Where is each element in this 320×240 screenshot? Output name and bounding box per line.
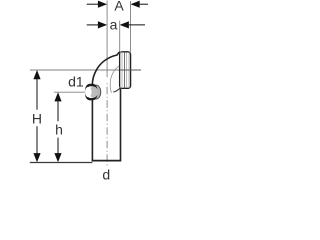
dimension a (87, 24, 145, 26)
socket bottom cone (113, 87, 121, 92)
svg-text:d: d (102, 167, 110, 180)
bend outer arc (92, 52, 120, 84)
extension line socket face (a) (119, 21, 121, 52)
centerline d1 port (54, 91, 85, 93)
grommet d1 body (91, 85, 101, 99)
svg-text:h: h (55, 122, 63, 138)
centerline over flange (120, 69, 141, 71)
svg-text:A: A (114, 0, 124, 14)
ground reference line (30, 162, 93, 164)
extension line pipe axis top (106, 1, 108, 78)
centerline pipe vertical dash-dot (106, 83, 108, 165)
svg-text:H: H (32, 110, 42, 126)
dimension H (36, 79, 38, 154)
pipe bottom edge (92, 160, 122, 162)
grommet d1 inner shade (89, 87, 98, 98)
svg-text:d1: d1 (68, 74, 84, 90)
pipe right edge (120, 89, 122, 161)
flange (120, 52, 131, 89)
svg-text:a: a (110, 17, 118, 33)
dimension h (57, 101, 59, 154)
grommet d1 rim (86, 85, 96, 99)
centerline outlet horizontal (30, 69, 141, 71)
dimension A (87, 3, 148, 5)
extension line flange face (A) (130, 1, 132, 52)
pipe left edge (91, 84, 93, 161)
bend inner silhouette (110, 66, 120, 93)
